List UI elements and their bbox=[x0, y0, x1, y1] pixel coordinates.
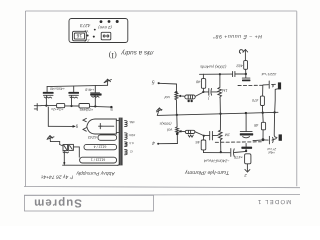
wire plate 2 to node bbox=[195, 132, 205, 137]
resistor R8 grid 1M bbox=[219, 114, 223, 153]
ground bus bbox=[157, 112, 278, 115]
resistor R9 478 bbox=[245, 154, 251, 171]
T1 secondary S3 bumps bbox=[125, 141, 134, 146]
svg-text:4273: 4273 bbox=[80, 23, 91, 28]
C12 label 2nd out bbox=[266, 147, 277, 155]
svg-text:г2: г2 bbox=[130, 149, 133, 153]
wire to pot 2 bbox=[176, 135, 178, 144]
wire primary return bbox=[63, 151, 120, 166]
resistor R10 bbox=[261, 113, 265, 141]
svg-text:(500κ)s: (500κ)s bbox=[159, 122, 171, 126]
svg-text:Y2: Y2 bbox=[84, 29, 88, 33]
title block rules bbox=[24, 187, 300, 196]
svg-text:Suprem: Suprem bbox=[33, 196, 82, 208]
ground arrow at bus end bbox=[156, 108, 162, 115]
svg-text:16: 16 bbox=[76, 32, 82, 38]
svg-text:×478: ×478 bbox=[233, 155, 242, 159]
svg-text:450+: 450+ bbox=[128, 133, 135, 137]
potentiometer VR2 bbox=[176, 115, 185, 135]
svg-text:(100κ) γω4mfs: (100κ) γω4mfs bbox=[200, 65, 226, 70]
T1 winding W3 bbox=[87, 135, 117, 140]
wire to pot bbox=[175, 84, 177, 91]
T1 secondary S4 bumps bbox=[125, 149, 133, 155]
svg-text:+450ν/40: +450ν/40 bbox=[50, 87, 65, 91]
svg-text:νoɫ: νoɫ bbox=[165, 95, 170, 100]
output coupling capacitor C9 bbox=[231, 149, 247, 157]
T1 winding W4 bbox=[84, 144, 117, 149]
svg-text:×4μt: ×4μt bbox=[267, 151, 275, 155]
wire to rectifier bbox=[48, 107, 76, 128]
output jack J4 bbox=[274, 112, 282, 140]
ground arrow stage2 bbox=[245, 169, 250, 172]
wire dashed to R6 bbox=[262, 85, 264, 96]
svg-text:6112 / 4: 6112 / 4 bbox=[94, 144, 107, 148]
input jack J2 bbox=[152, 140, 177, 146]
wire plate to node bbox=[195, 91, 204, 97]
capacitor C5 on rail bbox=[233, 72, 246, 77]
input jack J1 bbox=[151, 78, 177, 84]
lower rail wire bbox=[204, 152, 231, 154]
svg-text:1M: 1M bbox=[221, 88, 227, 92]
svg-text:Tωm-lγɫe /Płυmmγ: Tωm-lγɫe /Płυmmγ bbox=[185, 169, 230, 175]
svg-text:450-: 450- bbox=[129, 120, 135, 124]
chassis dashed line 2 bbox=[215, 141, 261, 144]
ground (power switch arrow) bbox=[47, 136, 54, 142]
chassis dashed line 1 bbox=[238, 84, 263, 86]
page frame bbox=[25, 11, 296, 187]
T1 secondary S1 bumps bbox=[125, 120, 135, 127]
triode V3 bbox=[185, 130, 195, 137]
svg-text:×2@44г: ×2@44г bbox=[80, 108, 94, 112]
resistor R5 bbox=[244, 61, 248, 74]
svg-text:+4F.8: +4F.8 bbox=[85, 88, 94, 92]
svg-text:+Gг+2ν: +Gг+2ν bbox=[51, 107, 64, 111]
output coupling capacitor C7 bbox=[263, 81, 275, 88]
svg-text:νoɫ: νoɫ bbox=[167, 127, 172, 132]
svg-text:61113 / 1: 61113 / 1 bbox=[91, 157, 105, 161]
svg-text:6.3: 6.3 bbox=[129, 141, 134, 145]
svg-text:(I): (I) bbox=[108, 51, 116, 60]
B+ supply arrow bbox=[239, 50, 247, 61]
svg-text:482: 482 bbox=[236, 63, 243, 67]
B+ terminal F bbox=[34, 104, 41, 111]
resistor R3 plate load bbox=[201, 74, 205, 92]
resistor R6 470 bbox=[260, 96, 264, 113]
resistor R2 bbox=[79, 104, 90, 108]
T1 secondary S2 bumps bbox=[125, 133, 136, 140]
ground rail top bbox=[47, 85, 108, 86]
resistor R4 grid 1M bbox=[218, 74, 222, 114]
svg-text:.022/1°ω4: .022/1°ω4 bbox=[262, 72, 277, 76]
B+ bus wire bbox=[41, 106, 111, 108]
svg-text:Abbʌγ Pωrsνppłγ: Abbʌγ Pωrsνppłγ bbox=[76, 170, 116, 176]
bus junction nodes bbox=[176, 111, 276, 116]
svg-text:f° 4γ 26 74+4c: f° 4γ 26 74+4c bbox=[40, 174, 73, 180]
svg-text:(2 mrn): (2 mrn) bbox=[98, 25, 112, 30]
chassis layout box bbox=[69, 19, 128, 43]
capacitor C10 decoupling 2 bbox=[240, 113, 253, 138]
svg-text:𝑚is a sudry: 𝑚is a sudry bbox=[120, 49, 153, 56]
capacitor C11 bbox=[241, 143, 252, 151]
resistor R1 bbox=[57, 103, 65, 107]
title logo box bbox=[25, 195, 154, 211]
output coupling capacitor C12 bbox=[269, 136, 276, 144]
wire node to cap bbox=[253, 139, 268, 142]
ground (chassis arrow) bbox=[104, 79, 111, 85]
svg-text:H+ ~ Ė uuuu+ 98°: H+ ~ Ė uuuu+ 98° bbox=[213, 33, 262, 40]
node rail wire bbox=[200, 73, 248, 75]
potentiometer VR1 bbox=[175, 91, 185, 115]
T1 winding W5 bbox=[80, 157, 117, 163]
coupling capacitor C8 bbox=[204, 131, 218, 140]
capacitor C1 bbox=[43, 87, 54, 106]
rectifier tube V1 bbox=[83, 118, 119, 134]
output jack J3 bbox=[275, 82, 281, 112]
capacitor C6 decoupling bbox=[242, 74, 250, 81]
capacitor C3 bbox=[90, 85, 101, 106]
wire switch to primary bbox=[73, 147, 79, 157]
svg-text:6Z43: 6Z43 bbox=[87, 135, 97, 139]
figure caption bbox=[108, 49, 153, 60]
svg-text:9: 9 bbox=[75, 124, 78, 129]
switch S1 bbox=[50, 142, 73, 153]
svg-text:~240mF/4νω4: ~240mF/4νω4 bbox=[203, 159, 229, 164]
svg-text:4: 4 bbox=[152, 140, 155, 146]
triode V2 bbox=[185, 95, 195, 102]
coupling capacitor C4 bbox=[203, 89, 217, 96]
capacitor C2 bbox=[68, 86, 79, 106]
svg-text:MODEL 1: MODEL 1 bbox=[257, 198, 292, 205]
svg-text:1M: 1M bbox=[224, 133, 230, 137]
svg-text:470: 470 bbox=[251, 98, 258, 102]
node bus junctions bbox=[45, 105, 112, 109]
svg-text:2.1: 2.1 bbox=[84, 38, 90, 42]
transformer T1 core bbox=[119, 118, 123, 166]
svg-text:2ᵈ νυt: 2ᵈ νυt bbox=[266, 147, 277, 151]
resistor R7 plate load 2 bbox=[201, 136, 206, 153]
